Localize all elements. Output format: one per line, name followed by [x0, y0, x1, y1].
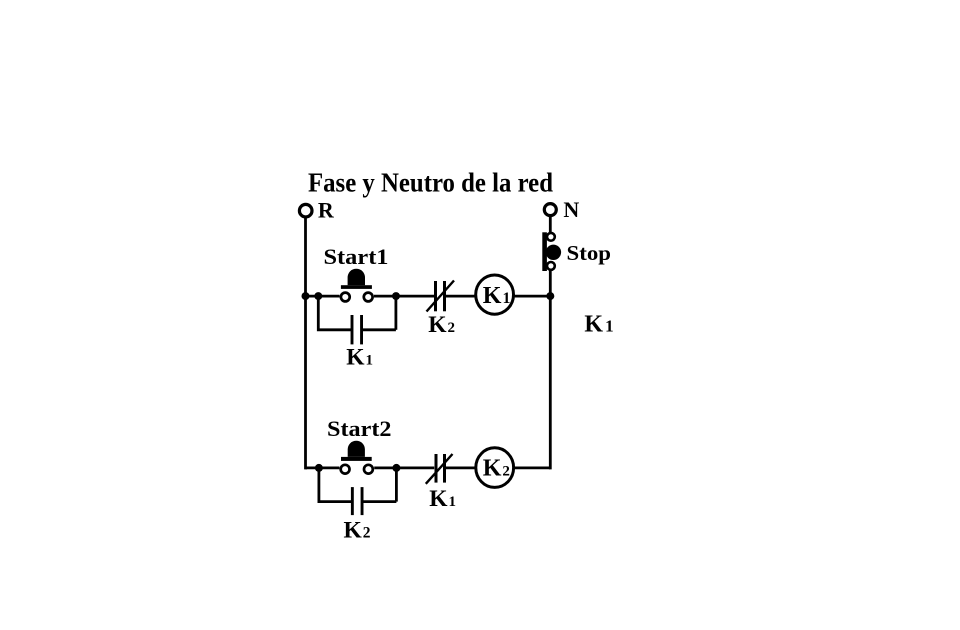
svg-text:Fase y Neutro de la red: Fase y Neutro de la red [308, 167, 553, 198]
svg-text:R: R [318, 198, 335, 223]
svg-text:Stop: Stop [567, 241, 612, 265]
svg-text:Start2: Start2 [327, 416, 392, 441]
svg-text:N: N [563, 197, 579, 222]
svg-text:Start1: Start1 [324, 244, 389, 269]
